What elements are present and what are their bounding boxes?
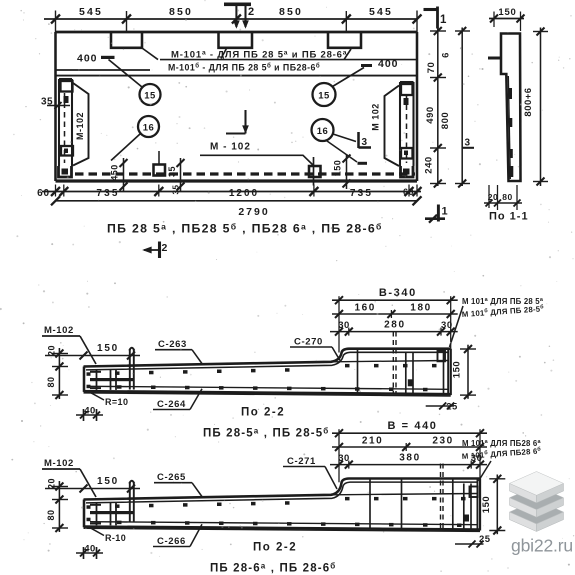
svg-text:150: 150 [97,476,119,487]
svg-text:25: 25 [446,402,458,413]
svg-text:М - 102: М - 102 [210,142,251,153]
svg-text:545: 545 [369,6,393,18]
svg-text:60: 60 [403,187,414,197]
svg-text:16: 16 [143,123,155,134]
svg-text:В = 440: В = 440 [387,420,437,432]
svg-text:80: 80 [46,509,56,520]
svg-text:210: 210 [362,436,384,447]
svg-text:R-10: R-10 [105,533,126,543]
svg-text:ПБ 28 5а , ПБ28 5б , ПБ28 6а: ПБ 28 5а , ПБ28 5б , ПБ28 6а , ПБ 28-6б [107,222,383,236]
svg-text:М-102: М-102 [75,112,85,140]
svg-text:М-101б - ДЛЯ ПБ 28 5б и ПБ28-: М-101б - ДЛЯ ПБ 28 5б и ПБ28-6б [168,63,320,73]
svg-text:160: 160 [354,303,376,314]
svg-text:1200: 1200 [229,188,259,199]
svg-text:2: 2 [162,242,168,254]
svg-text:30: 30 [338,453,350,464]
svg-text:240: 240 [424,156,435,173]
svg-text:С-271: С-271 [287,456,316,467]
svg-text:15: 15 [318,91,330,102]
svg-text:С-264: С-264 [157,399,186,410]
svg-text:М-102: М-102 [44,325,74,336]
svg-text:С-265: С-265 [157,472,186,483]
svg-text:25: 25 [479,534,491,545]
svg-text:150: 150 [498,7,516,18]
svg-text:С-263: С-263 [158,339,187,350]
svg-text:1: 1 [440,14,447,26]
svg-text:20: 20 [488,192,498,202]
svg-text:280: 280 [384,320,406,331]
svg-text:150: 150 [452,361,463,378]
svg-text:3: 3 [362,137,368,148]
svg-text:60: 60 [37,188,50,199]
svg-text:15: 15 [144,91,156,102]
svg-text:ПБ 28-5а , ПБ 28-5б: ПБ 28-5а , ПБ 28-5б [203,427,329,440]
svg-text:180: 180 [410,303,432,314]
svg-text:150: 150 [97,343,119,354]
svg-text:30: 30 [338,320,350,331]
svg-text:545: 545 [79,6,103,18]
svg-text:6: 6 [441,52,452,58]
svg-text:80: 80 [502,192,512,202]
svg-text:М-101а - ДЛЯ ПБ 28 5а и ПБ 28: М-101а - ДЛЯ ПБ 28 5а и ПБ 28-6а [171,50,347,61]
svg-text:230: 230 [432,436,454,447]
svg-text:В-340: В-340 [379,287,417,299]
svg-text:16: 16 [317,126,329,137]
svg-text:По 1-1: По 1-1 [489,211,529,223]
svg-text:150: 150 [481,496,492,513]
svg-text:735: 735 [350,188,373,199]
svg-text:R=10: R=10 [105,397,128,407]
svg-text:gbi22.ru: gbi22.ru [511,536,573,556]
svg-text:735: 735 [96,188,119,199]
svg-text:1: 1 [442,206,449,218]
svg-text:850: 850 [279,6,303,18]
svg-text:ПБ 28-6а , ПБ 28-6б: ПБ 28-6а , ПБ 28-6б [210,562,336,575]
svg-text:20: 20 [46,478,56,489]
svg-text:800+6: 800+6 [523,87,534,116]
svg-text:70: 70 [426,62,437,74]
svg-text:2: 2 [248,6,255,18]
svg-text:По 2-2: По 2-2 [241,407,285,419]
svg-text:800: 800 [440,112,451,129]
svg-text:380: 380 [399,453,421,464]
svg-text:С-270: С-270 [294,337,323,348]
svg-text:С-266: С-266 [157,536,186,547]
svg-text:80: 80 [46,376,56,387]
svg-text:2790: 2790 [238,206,269,218]
svg-text:По 2-2: По 2-2 [253,542,297,554]
svg-text:20: 20 [46,345,56,356]
svg-text:850: 850 [169,6,193,18]
svg-text:490: 490 [425,106,436,123]
svg-text:400: 400 [378,58,399,70]
svg-text:М 102: М 102 [370,103,380,131]
svg-text:М-102: М-102 [44,458,74,469]
